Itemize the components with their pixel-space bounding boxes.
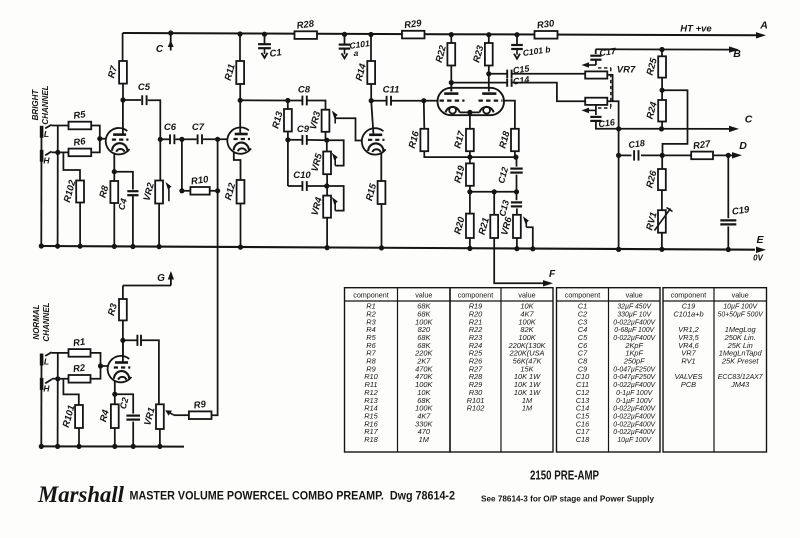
wire V1b plate lead	[122, 340, 124, 362]
svg-text:R8: R8	[97, 184, 111, 199]
wire C3 to VR1	[141, 340, 159, 404]
svg-text:0-047µF250V: 0-047µF250V	[613, 374, 656, 381]
tube V2a	[227, 127, 251, 153]
wire VR5 wiper strap	[327, 140, 344, 165]
resistor R102	[62, 178, 84, 203]
wire R102 to 0V	[79, 203, 81, 247]
junction rail/L branch	[55, 444, 60, 449]
node R21 top	[492, 189, 497, 194]
wire R22 to plate	[450, 66, 452, 92]
wire R23 to plate	[488, 66, 490, 92]
wire V3 plate lead	[371, 101, 373, 135]
svg-text:VR7: VR7	[617, 65, 636, 76]
wire rail to R23	[488, 35, 490, 43]
node R14/C11/plate V3	[369, 98, 374, 103]
svg-text:C17: C17	[599, 46, 618, 58]
pot VR4	[309, 195, 331, 217]
wire L branch to 0V	[57, 126, 59, 247]
resistor R9	[189, 399, 212, 419]
arrow F terminal	[543, 280, 553, 286]
wire node to C7	[183, 138, 197, 140]
svg-text:C: C	[156, 44, 164, 55]
svg-text:CHANNEL: CHANNEL	[42, 302, 51, 341]
wire C9 to VR3 bottom	[307, 139, 327, 141]
svg-text:R3: R3	[106, 302, 120, 317]
svg-text:JM43: JM43	[730, 380, 750, 389]
wire C10 to node	[307, 185, 327, 187]
arrow A terminal	[756, 32, 766, 38]
svg-text:0-022µF400V: 0-022µF400V	[613, 406, 656, 413]
wire normal channel 0V rail	[41, 445, 184, 447]
capacitor C16	[590, 117, 601, 121]
svg-text:R102: R102	[467, 404, 485, 413]
svg-text:C1: C1	[269, 47, 283, 60]
capacitor C3	[137, 335, 141, 346]
svg-text:R9: R9	[193, 399, 207, 412]
node rail/R14	[368, 32, 373, 37]
junction 0V/VR6 wiper	[530, 246, 535, 251]
wire node to R26	[661, 155, 663, 169]
wire left plate	[450, 83, 452, 92]
svg-text:0-022µF400V: 0-022µF400V	[613, 429, 656, 436]
svg-text:C6: C6	[164, 122, 177, 133]
wire R27 to D	[713, 154, 734, 156]
wire C2 to rail	[132, 422, 134, 447]
wire C6 to node	[175, 138, 182, 140]
node C11/R16/V4 grid	[421, 98, 426, 103]
wire wiper to C16	[595, 110, 597, 115]
svg-text:C12: C12	[496, 166, 510, 185]
svg-text:R1: R1	[72, 337, 86, 350]
tube V1b	[108, 356, 132, 382]
wire C5 to VR2 top	[148, 100, 161, 180]
wire C6 node down to R10	[181, 139, 183, 191]
junction 0V/jack sleeve	[39, 243, 44, 248]
svg-text:component: component	[671, 291, 707, 300]
svg-text:R7: R7	[106, 64, 120, 79]
svg-text:value: value	[415, 291, 432, 300]
svg-text:R5: R5	[73, 109, 87, 122]
wire R7 to node	[122, 84, 124, 100]
svg-text:250pF: 250pF	[623, 357, 645, 366]
node R13/C9	[285, 137, 290, 142]
resistor R24	[645, 100, 666, 122]
wire grid node to R16	[423, 101, 426, 129]
resistor R22	[434, 43, 455, 66]
wire R26 to RV1	[661, 190, 663, 210]
node V1 cathode	[112, 169, 117, 174]
node R3/C3	[120, 338, 125, 343]
wire rail to R14	[370, 35, 372, 62]
wire R24 to C line	[661, 122, 663, 129]
node R17/R19	[467, 155, 472, 160]
svg-text:1M: 1M	[522, 404, 533, 413]
resistor R8	[97, 181, 118, 203]
junction H wire	[55, 150, 60, 155]
wire V1b cathode lead	[114, 380, 116, 394]
wiper VR2	[166, 182, 172, 201]
svg-text:See 78614-3 for O/P stage and: See 78614-3 for O/P stage and Power Supp…	[481, 494, 654, 504]
svg-text:C16: C16	[598, 117, 617, 129]
capacitor C14	[507, 78, 511, 86]
wire cathode to R8	[113, 172, 115, 181]
wire R21 to F terminal	[494, 238, 545, 283]
svg-text:value: value	[626, 291, 643, 300]
svg-text:G: G	[157, 273, 165, 284]
capacitor C5	[138, 82, 151, 105]
node R27/C19	[726, 153, 731, 158]
resistor R28	[295, 18, 318, 39]
wire R13 to node	[287, 132, 289, 140]
wire R10 to riser	[210, 190, 218, 192]
wire rail to C101a	[344, 34, 346, 43]
resistor R13	[270, 109, 291, 132]
capacitor C17	[590, 56, 601, 60]
junction 0V/R12	[238, 245, 243, 250]
arrow B terminal	[729, 46, 739, 52]
wire node to C6	[160, 138, 169, 140]
wire V3 cathode lead	[380, 153, 382, 181]
wire G stub	[123, 285, 171, 287]
resistor R15	[364, 181, 385, 204]
resistor R16	[407, 129, 428, 151]
node V4 cathodes	[467, 110, 472, 115]
pot VR1	[142, 404, 164, 429]
wire HT+ve rail	[123, 33, 756, 35]
wire B to R25	[661, 50, 663, 57]
table rows	[364, 302, 764, 445]
svg-text:L: L	[44, 357, 49, 367]
node R22/C14	[449, 80, 454, 85]
node R10 right	[215, 188, 220, 193]
wiper VR4	[332, 197, 338, 211]
wire C8 to VR3	[307, 101, 325, 110]
capacitor C2	[126, 416, 140, 420]
junction RV1/0V	[659, 247, 664, 252]
svg-text:R4: R4	[98, 408, 112, 423]
svg-text:0V: 0V	[753, 254, 763, 263]
wire VR1 wiper to R9	[174, 414, 189, 416]
wire rail to C1	[264, 34, 266, 43]
wire cathode to C4	[114, 172, 133, 190]
wire R101 to rail	[78, 428, 80, 446]
svg-text:R18: R18	[364, 435, 378, 444]
resistor R11	[223, 61, 244, 84]
capacitor C7	[192, 122, 205, 144]
junction dropper/0V	[616, 247, 621, 252]
ground below C101b	[514, 49, 520, 59]
wire H tip to R2	[52, 378, 69, 380]
wire gang to wiper node	[595, 105, 597, 111]
wire R17 to R19	[469, 151, 471, 163]
capacitor C4	[127, 191, 138, 195]
junction C19/0V	[726, 247, 731, 252]
arrow C terminal	[729, 126, 739, 132]
jack H (bright)	[40, 150, 52, 162]
svg-text:0-047µF250V: 0-047µF250V	[613, 366, 656, 373]
wire R4 to rail	[114, 428, 116, 446]
wire C19 to 0V	[727, 226, 729, 249]
wiper VR3	[332, 111, 338, 124]
wire V1 plate lead	[122, 100, 124, 135]
wire VR7 right ends dropper	[607, 101, 618, 249]
wire H tip to R6	[52, 151, 69, 153]
junction H wire (normal)	[55, 376, 60, 381]
wire rail to C101b	[516, 35, 518, 44]
wire rail to R7	[122, 33, 124, 61]
svg-text:H: H	[43, 156, 50, 166]
node C6/C7	[179, 137, 184, 142]
svg-text:C7: C7	[192, 122, 205, 133]
wire to R20	[469, 192, 471, 214]
ground below C1	[262, 48, 268, 58]
wire VR5 to VR4	[326, 174, 328, 195]
svg-text:B: B	[733, 48, 741, 60]
wire into V4 grid	[424, 100, 439, 102]
svg-text:NORMAL: NORMAL	[32, 304, 41, 339]
svg-text:component: component	[458, 291, 494, 300]
junction 0V/R102	[78, 244, 83, 249]
resistor R20	[452, 214, 473, 238]
wire R25/R24 node strap to D line	[662, 90, 687, 155]
svg-text:C101a+b: C101a+b	[673, 310, 703, 319]
wire jack sleeve line (bright)	[40, 126, 42, 246]
wire RV1 to 0V	[661, 233, 663, 250]
svg-text:C10: C10	[293, 170, 311, 181]
wire VR4 to 0V	[326, 218, 328, 248]
junction dropper/D line	[616, 153, 621, 158]
ground below C101a	[342, 49, 348, 59]
svg-text:C2: C2	[118, 396, 131, 410]
wire C14 to VR7 lower gang	[512, 83, 586, 102]
svg-text:value: value	[732, 291, 749, 300]
wire L tip to R1	[52, 352, 69, 354]
wire node to C5	[123, 99, 141, 101]
junction 0V/VR2	[157, 244, 162, 249]
wire R3 to plate	[122, 320, 124, 356]
wire R12 to 0V	[240, 204, 242, 248]
wire to V1 grid	[100, 138, 107, 140]
capacitor C101a	[339, 45, 351, 49]
wire V2 plate lead	[239, 100, 241, 134]
node R7/C5/plate	[120, 97, 125, 102]
wire C14 left	[451, 82, 507, 84]
wire R25 to R24	[661, 78, 663, 100]
connection stub G	[168, 271, 174, 286]
wire to R3	[122, 286, 124, 300]
svg-text:a: a	[354, 48, 359, 58]
resistor R4	[98, 404, 119, 428]
svg-text:Marshall: Marshall	[37, 482, 125, 507]
svg-text:0-68µF 100V: 0-68µF 100V	[614, 327, 655, 334]
capacitor C15	[507, 70, 511, 78]
resistor R12	[223, 180, 244, 204]
svg-text:L: L	[44, 129, 49, 139]
wire node to R13	[287, 101, 289, 110]
wire B rail to C17	[595, 49, 597, 54]
svg-text:R10: R10	[190, 174, 209, 187]
node grid V1	[97, 136, 102, 141]
wire node to VR5	[326, 140, 328, 151]
node rail/R11	[237, 31, 242, 36]
wire C12 to node	[516, 175, 518, 192]
wire D node to C19	[727, 155, 729, 218]
wire R16/R17/R18 junction row	[424, 151, 516, 157]
wire VR7 upper right end	[607, 75, 612, 101]
wire C16 to C terminal	[596, 121, 730, 129]
resistor R7	[106, 61, 127, 84]
svg-text:0-022µF400V: 0-022µF400V	[613, 414, 656, 421]
wire VR3 wiper to V3 grid	[335, 118, 362, 140]
tube V3b	[362, 128, 386, 154]
resistor R21	[477, 215, 498, 238]
node VR5/VR4	[324, 183, 329, 188]
wire V1 cathode lead	[113, 153, 115, 172]
arrow E terminal	[756, 247, 766, 253]
wire R8 to 0V	[113, 203, 115, 246]
node C13 top	[514, 189, 519, 194]
wire VR1 to rail	[159, 429, 161, 446]
wire node to C11	[371, 100, 386, 102]
wire cathode to R4	[114, 394, 116, 404]
wire to V1b grid	[101, 365, 109, 367]
wire C18 to R27	[641, 154, 691, 156]
resistor R14	[354, 61, 375, 84]
capacitor C9	[297, 124, 310, 145]
jack L (normal)	[40, 352, 52, 365]
node rail/C101a	[342, 32, 347, 37]
pot VR5	[309, 152, 331, 175]
svg-text:MASTER VOLUME POWERCEL COMBO P: MASTER VOLUME POWERCEL COMBO PREAMP. Dwg…	[130, 489, 456, 503]
resistor R19	[452, 163, 473, 185]
svg-text:C19: C19	[731, 204, 750, 217]
wire VR4 wiper strap	[327, 186, 344, 211]
wire C7 to V2 grid	[203, 138, 227, 140]
junction 0V/R15	[379, 245, 384, 250]
node V1b cathode	[112, 392, 117, 397]
wire dropper to C18	[619, 154, 632, 156]
wire rail to R22	[450, 35, 452, 43]
tube V4 dual triode	[438, 88, 505, 115]
svg-text:PCB: PCB	[681, 380, 696, 389]
node R10 left	[179, 188, 184, 193]
svg-text:1M: 1M	[419, 435, 430, 444]
wire jack sleeve line (normal)	[40, 354, 42, 446]
resistor R5	[69, 109, 92, 129]
wire R20 to 0V	[469, 238, 471, 249]
svg-text:A: A	[759, 20, 768, 32]
svg-text:R28: R28	[296, 18, 315, 31]
wire VR6 to 0V	[516, 238, 518, 249]
wire node to C3	[123, 339, 137, 341]
capacitor C10	[293, 170, 311, 191]
wire C13 to VR6	[516, 208, 518, 214]
capacitor C6	[164, 122, 177, 144]
junction rail/sleeve	[39, 444, 44, 449]
wire C15 left	[489, 73, 507, 75]
junction 0V/VR7 dropper	[616, 247, 621, 252]
junction 0V/VR4	[325, 245, 330, 250]
wire to C10	[288, 185, 302, 187]
node C5/C6/VR2	[158, 137, 163, 142]
svg-text:CHANNEL: CHANNEL	[41, 85, 50, 124]
wiper VR1 arrow	[165, 410, 174, 415]
capacitor C1	[258, 44, 271, 48]
connection stub C	[168, 33, 174, 51]
node C8/R13	[285, 98, 290, 103]
arrow D terminal	[732, 152, 742, 158]
node R11/plate V2	[238, 98, 243, 103]
wire cathode to C2	[115, 394, 133, 413]
wire C4 to 0V	[132, 195, 134, 246]
wire H to R102	[63, 152, 80, 180]
jack H (normal)	[40, 378, 52, 390]
wire VR6 wiper to 0V	[526, 227, 533, 249]
junction rail/VR1	[157, 444, 162, 449]
wire 0V rail	[41, 246, 755, 250]
resistor R23	[471, 43, 492, 66]
svg-text:C9: C9	[297, 124, 310, 135]
pot VR6	[499, 215, 521, 238]
resistor R2	[69, 362, 91, 382]
node C7/R10/V2 grid	[215, 137, 220, 142]
wiper VR5	[332, 153, 338, 166]
gang link dashes	[598, 68, 611, 108]
wire long riser C7 node down to R9	[212, 139, 218, 415]
wire R1/R2 right junction	[91, 353, 101, 379]
svg-text:R6: R6	[73, 136, 87, 149]
wire R5/R6 right junction	[91, 126, 100, 153]
node R18/C12	[513, 155, 518, 160]
svg-text:10µF 100V: 10µF 100V	[723, 304, 758, 311]
svg-text:0-022µF400V: 0-022µF400V	[613, 319, 656, 326]
svg-text:H: H	[43, 384, 50, 394]
wire C17 to wiper	[595, 60, 597, 65]
capacitor C8	[298, 85, 311, 106]
wire R18 bottom	[514, 151, 516, 157]
node R23/C15	[486, 71, 491, 76]
svg-text:C8: C8	[298, 85, 311, 96]
svg-text:C18: C18	[628, 138, 646, 150]
pot VR7 lower gang	[585, 98, 607, 105]
resistor R27	[691, 139, 713, 160]
node R25/R24	[660, 88, 665, 93]
wiper RV1	[655, 208, 673, 231]
node B/R25	[659, 47, 664, 52]
svg-text:R27: R27	[692, 139, 711, 152]
wire L branch to rail	[57, 353, 59, 447]
svg-text:HT +ve: HT +ve	[680, 24, 712, 35]
junction dropper/C line	[616, 126, 621, 131]
resistor R6	[69, 136, 92, 156]
wire V4 right grid to R18	[504, 101, 515, 129]
resistor R10	[190, 174, 209, 195]
wire to C13	[516, 192, 518, 200]
svg-text:C101 b: C101 b	[522, 44, 551, 58]
resistor R26	[644, 169, 665, 190]
wiper VR7 upper	[582, 62, 597, 68]
junction rail/C2	[131, 444, 136, 449]
wire to C12	[516, 157, 518, 167]
node C18/R26	[660, 153, 665, 158]
node R19/R20	[467, 189, 472, 194]
node grid V1b	[98, 363, 103, 368]
junction 0V/R8	[112, 244, 117, 249]
wire C11 to V4 grid node	[391, 100, 423, 102]
svg-text:C11: C11	[383, 85, 400, 96]
wire V2 cathode lead	[234, 152, 241, 180]
resistor R18	[497, 129, 518, 151]
